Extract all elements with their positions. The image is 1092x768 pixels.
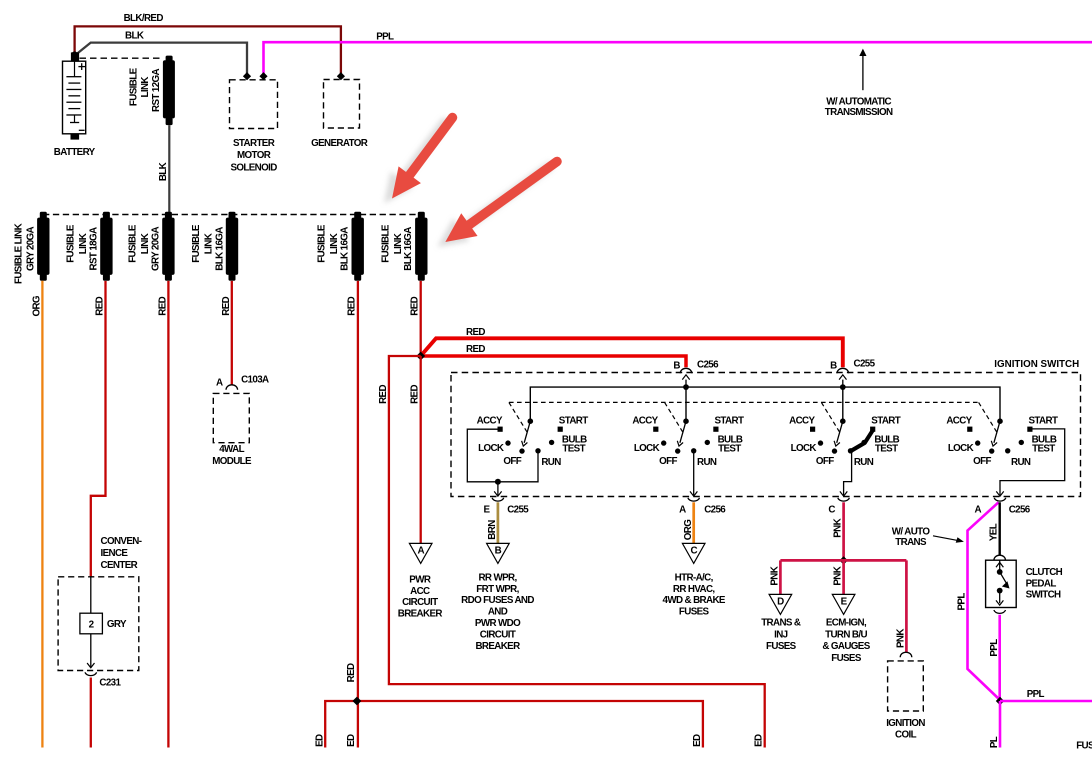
svg-text:SOLENOID: SOLENOID <box>230 162 277 173</box>
svg-text:CIRCUIT: CIRCUIT <box>402 597 438 608</box>
svg-text:ACCY: ACCY <box>789 416 815 427</box>
svg-text:START: START <box>871 415 900 426</box>
svg-text:FUSI: FUSI <box>1076 741 1092 752</box>
wire ORG from F1 <box>31 281 42 748</box>
svg-text:TRANS &: TRANS & <box>761 617 801 628</box>
svg-text:PWR WDO: PWR WDO <box>475 618 521 629</box>
terminal A PWR ACC <box>409 543 432 563</box>
wire RED upper feed to C255 <box>422 338 843 367</box>
svg-text:PPL: PPL <box>1027 689 1045 700</box>
svg-text:STARTER: STARTER <box>233 138 275 149</box>
svg-text:4WAL: 4WAL <box>219 444 244 455</box>
svg-text:C255: C255 <box>507 505 529 516</box>
svg-text:B: B <box>495 546 502 557</box>
terminal E ECM-IGN <box>832 594 855 614</box>
svg-text:C231: C231 <box>99 677 121 688</box>
section 2 output RUN to A C256 <box>690 451 697 496</box>
connector B C255 <box>830 358 875 387</box>
svg-text:C255: C255 <box>854 358 876 369</box>
svg-text:GRY 20GA: GRY 20GA <box>151 226 162 271</box>
svg-text:C103A: C103A <box>241 374 269 385</box>
svg-text:RUN: RUN <box>1011 457 1031 468</box>
starter motor solenoid <box>230 72 278 173</box>
connector B C256 <box>673 359 719 387</box>
label TRANS & INJ FUSES <box>761 617 801 652</box>
svg-text:ECM-IGN,: ECM-IGN, <box>826 617 867 628</box>
svg-text:BLK/RED: BLK/RED <box>124 13 164 24</box>
generator <box>311 72 368 149</box>
connector A C103A <box>216 374 269 389</box>
wire RED from F2 to convenience center <box>91 281 106 577</box>
svg-text:BLK 16GA: BLK 16GA <box>214 227 225 271</box>
wire RED branch left-down-right <box>378 356 765 748</box>
annotation arrow 1 <box>385 123 445 203</box>
svg-text:FUSES: FUSES <box>766 641 797 652</box>
label RED <box>466 327 485 338</box>
label PWR ACC CIRCUIT BREAKER <box>398 575 443 620</box>
svg-text:ORG: ORG <box>683 519 694 540</box>
wire ORG <box>683 502 694 543</box>
svg-text:MOTOR: MOTOR <box>237 150 271 161</box>
svg-text:RED: RED <box>410 296 421 315</box>
svg-text:CLUTCH: CLUTCH <box>1026 567 1063 578</box>
svg-text:TEST: TEST <box>875 444 898 455</box>
svg-text:W/ AUTO: W/ AUTO <box>892 526 931 537</box>
svg-text:OFF: OFF <box>973 456 991 467</box>
label FUS cut at edge <box>1076 741 1092 752</box>
svg-text:RUN: RUN <box>697 457 717 468</box>
svg-text:RR HVAC,: RR HVAC, <box>673 584 716 595</box>
wire PNK to D <box>770 560 781 594</box>
svg-text:RED: RED <box>378 385 389 404</box>
svg-text:BLK 16GA: BLK 16GA <box>403 227 414 271</box>
wire RED from F4 to 4WAL module <box>221 281 232 385</box>
ignition switch box <box>451 359 1081 497</box>
wire BRN <box>487 502 498 543</box>
svg-text:BATTERY: BATTERY <box>54 147 96 158</box>
svg-text:HTR-A/C,: HTR-A/C, <box>675 572 714 583</box>
svg-text:PEDAL: PEDAL <box>1026 578 1057 589</box>
wire to connector C231 <box>87 634 94 668</box>
svg-text:YEL: YEL <box>989 523 1000 541</box>
wire BLK battery to starter solenoid <box>76 43 247 74</box>
ignition switch feed rail <box>530 384 1000 421</box>
svg-text:PPL: PPL <box>957 593 968 611</box>
svg-text:LOCK: LOCK <box>948 443 974 454</box>
fusible link F2 <box>66 212 113 281</box>
svg-text:ED: ED <box>692 734 703 747</box>
svg-text:GRY: GRY <box>107 619 127 630</box>
wire YEL to clutch pedal switch <box>989 502 1000 555</box>
connector A C256 right <box>975 498 1031 516</box>
note W/ AUTOMATIC TRANSMISSION with arrow <box>825 49 893 118</box>
svg-text:ORG: ORG <box>31 295 42 316</box>
svg-text:RST 12GA: RST 12GA <box>151 68 162 111</box>
annotation arrow 2 <box>438 167 549 247</box>
svg-text:CENTER: CENTER <box>101 560 138 571</box>
connector A C256 <box>679 498 726 516</box>
svg-text:COIL: COIL <box>895 729 917 740</box>
svg-text:PNK: PNK <box>896 629 907 648</box>
label BLK/RED <box>124 13 164 24</box>
convenience center <box>58 536 142 671</box>
svg-text:ACCY: ACCY <box>632 416 658 427</box>
svg-text:AND: AND <box>488 607 508 618</box>
svg-text:RR WPR,: RR WPR, <box>478 572 517 583</box>
svg-text:PL: PL <box>989 736 1000 748</box>
svg-text:TEST: TEST <box>562 444 585 455</box>
svg-text:OFF: OFF <box>659 456 677 467</box>
PNK junction node <box>780 556 906 564</box>
wire BLK fusible link to bus <box>158 125 169 214</box>
junction node <box>416 352 425 361</box>
svg-text:IENCE: IENCE <box>101 548 129 559</box>
svg-text:MODULE: MODULE <box>212 456 252 467</box>
wire RED lower feed to C256 <box>421 356 686 367</box>
svg-text:BREAKER: BREAKER <box>475 641 520 652</box>
svg-text:PNK: PNK <box>833 566 844 585</box>
svg-text:CIRCUIT: CIRCUIT <box>480 630 516 641</box>
terminal C HTR feeds <box>682 543 705 563</box>
svg-text:A: A <box>417 546 424 557</box>
svg-text:START: START <box>559 415 588 426</box>
battery <box>54 51 96 158</box>
note W/ AUTO TRANS <box>892 526 964 547</box>
svg-text:A: A <box>679 505 686 516</box>
svg-text:FUSIBLE: FUSIBLE <box>66 224 77 263</box>
fusible link F4 <box>191 212 238 281</box>
svg-text:START: START <box>715 415 744 426</box>
wire PPL clutch to junction <box>989 615 1000 701</box>
svg-text:ED: ED <box>346 734 357 747</box>
label ECM-IGN fuses <box>822 617 870 664</box>
svg-text:C256: C256 <box>704 505 726 516</box>
clutch pedal switch <box>986 555 1063 613</box>
svg-text:RED: RED <box>157 296 168 315</box>
svg-text:CONVEN-: CONVEN- <box>101 536 142 547</box>
label HTR-A/C fuses <box>663 572 726 617</box>
svg-text:PPL: PPL <box>376 32 394 43</box>
svg-text:BRN: BRN <box>487 520 498 540</box>
svg-text:FUSIBLE: FUSIBLE <box>316 224 327 263</box>
svg-text:A: A <box>216 378 223 389</box>
PPL junction node <box>996 697 1004 705</box>
fusible link F5 <box>316 212 364 281</box>
section 1 output ACCY+RUN to E C255 <box>467 429 538 496</box>
ignition switch section 1 <box>477 402 589 468</box>
svg-text:LINK: LINK <box>140 77 151 98</box>
dashed wire battery to fusible link RST 12GA <box>80 57 164 59</box>
wire PPL top <box>264 42 1092 73</box>
wire RED below C231 <box>90 678 92 748</box>
svg-text:GRY 20GA: GRY 20GA <box>26 226 37 271</box>
label RR WPR fuses <box>461 572 534 652</box>
bus dashed line <box>43 214 422 216</box>
svg-text:4WD & BRAKE: 4WD & BRAKE <box>663 595 726 606</box>
fusible link F3 <box>128 212 175 281</box>
svg-text:RED: RED <box>221 296 232 315</box>
wire PPL w/auto trans branch <box>957 502 1000 700</box>
ignition switch section 3 <box>789 402 901 468</box>
svg-text:& GAUGES: & GAUGES <box>822 641 870 652</box>
svg-text:TRANSMISSION: TRANSMISSION <box>825 107 893 118</box>
svg-text:LOCK: LOCK <box>791 443 817 454</box>
svg-text:RED: RED <box>466 344 485 355</box>
connector C <box>828 498 849 516</box>
wire RED branch to PWR ACC circuit breaker <box>410 356 421 544</box>
svg-text:FUSES: FUSES <box>679 607 710 618</box>
svg-text:FUSIBLE LINK: FUSIBLE LINK <box>13 223 24 284</box>
svg-text:C: C <box>828 505 835 516</box>
svg-text:RDO FUSES AND: RDO FUSES AND <box>461 595 534 606</box>
svg-text:ACC: ACC <box>410 586 430 597</box>
svg-text:RED: RED <box>466 327 485 338</box>
svg-text:BREAKER: BREAKER <box>398 609 443 620</box>
svg-text:OFF: OFF <box>816 456 834 467</box>
svg-text:PNK: PNK <box>833 518 844 537</box>
4WAL module <box>212 393 252 467</box>
connector C231 <box>85 672 122 688</box>
svg-text:RED: RED <box>347 296 358 315</box>
svg-text:TEST: TEST <box>1032 444 1055 455</box>
svg-text:C: C <box>690 546 697 557</box>
svg-text:RUN: RUN <box>854 457 874 468</box>
wire RED from F5 to lower junction <box>346 281 358 701</box>
svg-text:BLK: BLK <box>158 162 169 181</box>
svg-text:RUN: RUN <box>541 457 561 468</box>
svg-text:C256: C256 <box>1009 505 1031 516</box>
ignition switch section 4 <box>946 402 1058 468</box>
svg-text:PWR: PWR <box>409 575 431 586</box>
svg-text:RED: RED <box>346 663 357 682</box>
svg-text:BLK: BLK <box>125 31 144 42</box>
section 3 output RUN to C <box>840 451 852 496</box>
wire PPL right <box>1000 689 1092 701</box>
label BLK <box>125 31 144 42</box>
terminal B PWR feeds <box>487 543 510 563</box>
svg-text:FUSES: FUSES <box>831 653 862 664</box>
mechanical linkage dashed <box>509 401 979 403</box>
svg-text:LOCK: LOCK <box>478 443 504 454</box>
svg-text:IGNITION: IGNITION <box>886 718 925 729</box>
svg-text:ED: ED <box>314 734 325 747</box>
svg-text:LINK: LINK <box>140 233 151 254</box>
svg-text:TRANS: TRANS <box>895 537 927 548</box>
wire PNK to E <box>833 560 844 594</box>
svg-text:ED: ED <box>754 734 765 747</box>
terminal D TRANS&INJ <box>769 594 792 614</box>
svg-text:PPL: PPL <box>989 639 1000 657</box>
label RED <box>466 344 485 355</box>
svg-text:RED: RED <box>95 296 106 315</box>
svg-text:LINK: LINK <box>204 233 215 254</box>
svg-text:FUSIBLE: FUSIBLE <box>128 67 139 106</box>
svg-text:FUSIBLE: FUSIBLE <box>381 224 392 263</box>
wire PNK to junction <box>833 502 844 560</box>
svg-text:IGNITION SWITCH: IGNITION SWITCH <box>994 359 1079 370</box>
fuse 2 GRY <box>80 613 127 634</box>
wire RED from F6 to junction <box>410 281 421 356</box>
svg-text:GENERATOR: GENERATOR <box>311 138 368 149</box>
svg-text:OFF: OFF <box>503 456 521 467</box>
svg-text:C256: C256 <box>697 359 719 370</box>
ignition switch section 2 <box>632 402 744 468</box>
svg-text:PNK: PNK <box>770 566 781 585</box>
wire PPL down <box>989 701 1000 748</box>
svg-text:A: A <box>975 505 982 516</box>
svg-text:B: B <box>673 360 680 371</box>
wire BLK/RED battery to generator <box>75 26 341 73</box>
svg-text:INJ: INJ <box>774 629 788 640</box>
svg-text:ACCY: ACCY <box>477 416 503 427</box>
fusible link F1 <box>13 212 49 284</box>
fusible link RST 12GA <box>128 56 175 126</box>
connector E C255 <box>483 498 529 516</box>
svg-text:D: D <box>777 597 784 608</box>
fusible link F6 <box>381 212 428 281</box>
svg-text:RST 18GA: RST 18GA <box>89 227 100 270</box>
svg-text:START: START <box>1029 415 1058 426</box>
svg-text:FUSIBLE: FUSIBLE <box>128 224 139 263</box>
svg-text:BLK 16GA: BLK 16GA <box>339 227 350 271</box>
svg-text:TURN B/U: TURN B/U <box>825 629 867 640</box>
ignition coil <box>886 652 925 740</box>
section 4 output START to A C256 <box>996 429 1064 496</box>
svg-text:LOCK: LOCK <box>634 443 660 454</box>
lower junction node and RED rails <box>314 697 703 748</box>
svg-text:LINK: LINK <box>78 233 89 254</box>
svg-text:FUSIBLE: FUSIBLE <box>191 224 202 263</box>
svg-text:B: B <box>830 360 837 371</box>
svg-text:TEST: TEST <box>718 444 741 455</box>
svg-text:RED: RED <box>410 385 421 404</box>
wire PNK to ignition coil <box>896 560 907 652</box>
svg-text:FRT WPR,: FRT WPR, <box>476 584 519 595</box>
label PPL <box>376 32 394 43</box>
svg-text:ACCY: ACCY <box>946 416 972 427</box>
wire RED from F3 <box>157 281 168 748</box>
svg-text:SWITCH: SWITCH <box>1026 590 1061 601</box>
